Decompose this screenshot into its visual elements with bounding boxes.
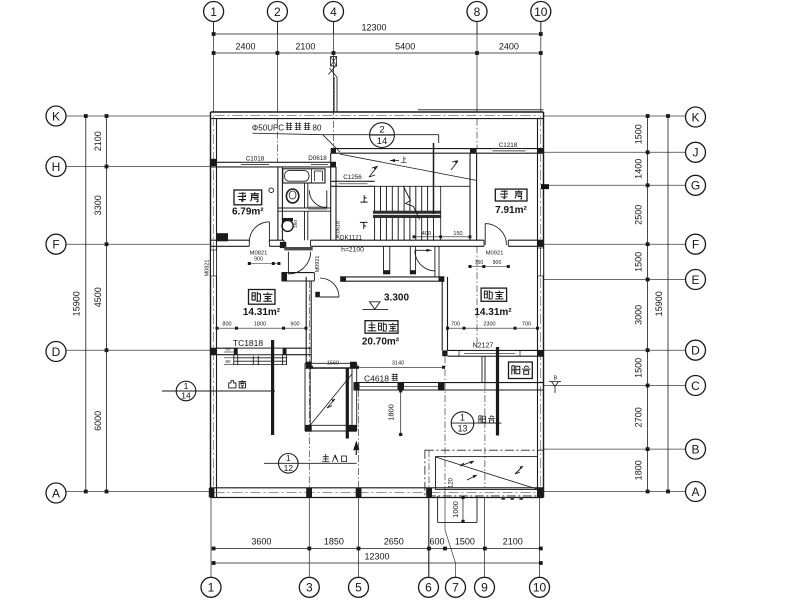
svg-text:3140: 3140 (392, 361, 404, 367)
svg-text:8: 8 (474, 5, 481, 19)
grid bubbles right (686, 107, 706, 127)
balcony west wall (481, 356, 483, 382)
grid bubbles bottom (201, 577, 221, 597)
svg-text:F: F (52, 238, 59, 252)
wall 8 column (stair east) (469, 153, 471, 240)
window D0618 in H wall (311, 163, 328, 167)
balcony note at 1/13 (479, 416, 486, 424)
threshold band F bath (284, 247, 313, 250)
right overall dimension 15900 (667, 116, 669, 492)
terrace diagonal drainage (436, 457, 538, 489)
window N2127 in D wall (464, 351, 515, 356)
detail circle 1/14 (176, 381, 196, 401)
window C1218 in J wall (492, 149, 525, 153)
svg-text:14: 14 (377, 136, 388, 147)
svg-text:M0821: M0821 (205, 260, 211, 277)
svg-text:B: B (691, 442, 699, 456)
svg-text:C1018: C1018 (246, 155, 265, 162)
wall H row (1-4) (211, 161, 337, 163)
wall G row (4-landing) (331, 180, 375, 182)
slope mark 1 (369, 166, 378, 177)
svg-text:1800: 1800 (634, 460, 644, 480)
svg-text:J: J (693, 146, 699, 160)
svg-text:12300: 12300 (364, 552, 389, 562)
right segment dimensions (647, 116, 649, 492)
svg-text:900: 900 (493, 260, 502, 266)
svg-text:80: 80 (313, 123, 322, 132)
grid bubbles left (46, 106, 66, 126)
window on right wall (M0921) (538, 248, 544, 276)
left segment dimensions (106, 116, 108, 492)
detail circle 1/13 (451, 412, 474, 435)
door M0821 study-left (249, 222, 269, 242)
stair roof diagonal (340, 154, 477, 180)
svg-text:2100: 2100 (93, 131, 103, 151)
svg-text:90: 90 (225, 359, 231, 364)
svg-text:2100: 2100 (295, 42, 315, 52)
exterior right wall (543, 112, 545, 498)
terrace outline (425, 450, 544, 496)
svg-text:1800: 1800 (254, 322, 266, 328)
F wall stubs under stairs (383, 246, 385, 274)
svg-text:2400: 2400 (499, 42, 519, 52)
svg-text:2100: 2100 (503, 537, 523, 547)
svg-text:F: F (692, 238, 699, 252)
svg-text:D0618: D0618 (308, 155, 327, 162)
column blocks (217, 233, 229, 241)
svg-text:15900: 15900 (72, 291, 82, 316)
svg-text:7.91m²: 7.91m² (495, 205, 527, 216)
bedroom left label (249, 290, 276, 305)
bedroom-left interior dims (217, 327, 306, 329)
svg-text:2650: 2650 (384, 537, 404, 547)
svg-text:12300: 12300 (361, 23, 386, 33)
svg-text:120: 120 (448, 477, 454, 488)
under-stair room east wall (434, 246, 436, 277)
svg-text:G: G (691, 179, 700, 193)
bathtub (285, 171, 309, 182)
door master bedroom (320, 278, 339, 297)
wall C row (354, 382, 544, 384)
window on left wall (M0821) (211, 250, 217, 276)
washbasin (286, 189, 298, 203)
left overall dimension 15900 (85, 116, 87, 492)
svg-text:9: 9 (481, 581, 488, 595)
svg-text:h=2100: h=2100 (341, 247, 364, 254)
svg-text:14.31m²: 14.31m² (243, 307, 281, 318)
svg-text:6.79m²: 6.79m² (232, 206, 264, 217)
wc shelf lines (315, 170, 323, 172)
window C1256 in G wall (339, 182, 368, 186)
wall D row right (448, 349, 544, 351)
svg-text:3300: 3300 (93, 195, 103, 215)
svg-text:5: 5 (355, 581, 362, 595)
svg-text:K: K (691, 110, 699, 124)
svg-text:1500: 1500 (634, 358, 644, 378)
dim 1000 on steps (462, 498, 464, 522)
svg-text:2500: 2500 (634, 205, 644, 225)
svg-text:1: 1 (286, 453, 291, 463)
stair right edge (440, 186, 442, 240)
balcony label boxed (509, 362, 533, 379)
rain downspout top (331, 57, 337, 67)
svg-text:1850: 1850 (324, 537, 344, 547)
svg-text:DK1121: DK1121 (340, 234, 362, 241)
porch frame (305, 362, 357, 364)
svg-text:1400: 1400 (634, 159, 644, 179)
svg-text:3000: 3000 (634, 305, 644, 325)
wall E corridor (340, 276, 444, 278)
svg-text:1: 1 (210, 5, 217, 19)
wall E stub west (282, 272, 315, 274)
porch diagonal (310, 374, 352, 425)
svg-text:DK0618: DK0618 (336, 221, 342, 241)
svg-text:D: D (52, 345, 61, 359)
stair section cut line (433, 143, 435, 214)
exterior left wall (210, 112, 212, 498)
bay window TC1818 (233, 355, 235, 365)
bathroom horizontal divider (278, 207, 331, 209)
svg-text:10: 10 (534, 5, 548, 19)
section bar 1/14 through bay (271, 340, 274, 435)
window C4618 in C wall (360, 383, 439, 389)
svg-text:2: 2 (274, 5, 281, 19)
wall 7 column (master east) (441, 277, 443, 351)
bathroom inner door (309, 190, 327, 208)
exterior top wall (K) (211, 111, 544, 113)
top overall dimension 12300 (214, 33, 541, 35)
svg-text:10: 10 (533, 581, 547, 595)
terrace slope arrows (460, 461, 477, 480)
door bath-hall (288, 252, 310, 274)
svg-text:Φ50UPC: Φ50UPC (252, 123, 284, 132)
stair mid landing rail (373, 211, 441, 218)
svg-text:750: 750 (475, 260, 484, 266)
svg-text:900: 900 (290, 322, 299, 328)
svg-text:2300: 2300 (483, 322, 495, 328)
bay side tick dims (224, 351, 234, 353)
svg-text:3: 3 (306, 581, 313, 595)
landing edge line (375, 185, 470, 187)
dim 1800 below C window (400, 391, 402, 435)
wall F row (211, 239, 250, 241)
section bar 1/12 through porch (346, 369, 349, 439)
svg-text:C: C (691, 379, 700, 393)
wall J row (4-10) (331, 148, 544, 150)
main entrance note (322, 454, 330, 461)
bay window opening in D wall (237, 349, 284, 355)
svg-text:C1218: C1218 (499, 142, 518, 149)
svg-text:H: H (52, 160, 61, 174)
bath door threshold (308, 207, 327, 210)
svg-text:3600: 3600 (251, 537, 271, 547)
svg-text:13: 13 (458, 423, 468, 433)
svg-text:1: 1 (208, 581, 215, 595)
wall 2 column (bath west) (277, 167, 279, 240)
svg-text:4500: 4500 (93, 287, 103, 307)
svg-text:6: 6 (425, 581, 432, 595)
study left label (234, 190, 262, 205)
svg-text:1800: 1800 (387, 404, 396, 421)
svg-text:4: 4 (330, 5, 337, 19)
stair down label (360, 222, 368, 229)
toilet (282, 220, 293, 231)
svg-text:1560: 1560 (327, 361, 339, 367)
bottom overall dimension 12300 (214, 562, 541, 564)
svg-text:B: B (554, 376, 558, 382)
up arrow on diagonal (390, 160, 399, 162)
svg-text:150: 150 (293, 220, 299, 228)
porch corner columns (306, 362, 312, 369)
parapet line above top wall right (418, 109, 544, 111)
svg-text:20.70m²: 20.70m² (362, 337, 400, 348)
svg-text:M0921: M0921 (315, 256, 321, 273)
svg-text:2: 2 (379, 124, 384, 135)
window C1018 in H wall (241, 163, 269, 167)
grid axis lines (dash-dot) (213, 21, 215, 112)
entrance arrow (353, 441, 359, 451)
svg-text:700: 700 (451, 322, 460, 328)
svg-text:5400: 5400 (395, 42, 415, 52)
study right label (495, 189, 527, 201)
stair break line (404, 187, 420, 220)
wall D row left (211, 347, 312, 349)
svg-text:N2127: N2127 (473, 342, 494, 349)
svg-text:1: 1 (184, 381, 189, 391)
top segment dimensions (214, 52, 541, 54)
svg-text:1500: 1500 (455, 537, 475, 547)
svg-text:1: 1 (460, 413, 465, 423)
svg-text:6000: 6000 (93, 411, 103, 431)
bathtub counter (283, 169, 325, 183)
detail circle 2/14 (370, 123, 395, 148)
diagonal leader to J wall (323, 135, 340, 152)
svg-text:E: E (691, 273, 699, 287)
wall 4 column (bath east / stair west) (330, 153, 332, 240)
wall 3 column (master west) (305, 277, 307, 363)
bedroom right label (481, 288, 507, 301)
elevation flag right of C wall (549, 382, 561, 387)
svg-text:900: 900 (254, 257, 263, 263)
porch slope arrows (327, 399, 335, 408)
svg-text:A: A (691, 485, 699, 499)
svg-text:TC1818: TC1818 (233, 338, 264, 348)
C wall black blocks (354, 382, 360, 390)
svg-text:150: 150 (453, 231, 462, 237)
svg-text:7: 7 (452, 581, 459, 595)
bathroom lower divider (304, 211, 306, 240)
svg-text:M0921: M0921 (486, 250, 504, 256)
svg-text:800: 800 (222, 322, 231, 328)
stair up label (360, 195, 367, 202)
svg-text:2400: 2400 (235, 42, 255, 52)
section bar 1/13 through balcony (496, 347, 499, 436)
door under-stair room (415, 250, 436, 271)
terrace inner floor (436, 457, 538, 490)
stair treads (374, 186, 376, 240)
bottom segment dimensions (214, 548, 541, 550)
grid 7 leader (444, 356, 446, 488)
svg-text:2700: 2700 (634, 407, 644, 427)
master C-window dims (312, 366, 444, 368)
door M0921 study-right (485, 224, 506, 245)
svg-text:1000: 1000 (451, 501, 460, 518)
svg-text:400: 400 (422, 231, 431, 237)
svg-text:3.300: 3.300 (384, 292, 409, 303)
bathroom divider vertical (304, 183, 306, 208)
detail circle 1/12 (279, 454, 299, 474)
slope mark 2 (451, 161, 458, 171)
entry steps (437, 496, 439, 523)
svg-text:1500: 1500 (634, 252, 644, 272)
svg-text:15900: 15900 (654, 291, 664, 316)
paper holder (269, 188, 274, 193)
svg-text:C1256: C1256 (343, 174, 362, 181)
svg-text:1500: 1500 (634, 124, 644, 144)
svg-text:12: 12 (284, 463, 294, 473)
terrace ticks below (502, 497, 505, 500)
exterior bottom wall (A) (211, 497, 544, 499)
svg-text:14.31m²: 14.31m² (474, 307, 512, 318)
svg-text:700: 700 (522, 322, 531, 328)
master bedroom label (365, 321, 398, 334)
svg-text:60: 60 (225, 347, 231, 352)
svg-text:K: K (52, 109, 60, 123)
svg-text:14: 14 (181, 391, 191, 401)
svg-text:D: D (691, 344, 700, 358)
grid bubbles top (213, 21, 215, 34)
svg-text:600: 600 (429, 537, 444, 547)
svg-text:A: A (52, 486, 60, 500)
bedroom-right interior dims (448, 327, 538, 329)
svg-text:C4618: C4618 (364, 373, 389, 383)
bay window note (229, 381, 236, 388)
